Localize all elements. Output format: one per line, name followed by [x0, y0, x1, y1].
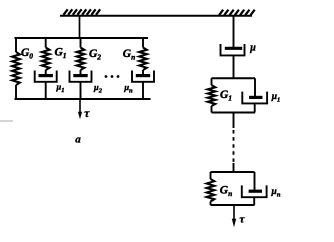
svg-text:a: a — [75, 133, 81, 145]
svg-text:μ: μ — [249, 43, 256, 54]
svg-text:τ: τ — [84, 108, 90, 120]
